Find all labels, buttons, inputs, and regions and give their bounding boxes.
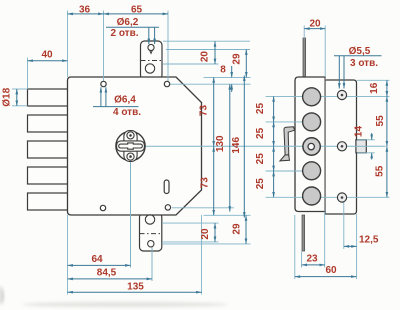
ext line body top y77.4 (204, 76, 251, 78)
screw hole bottom-left (100, 205, 105, 210)
svg-text:20: 20 (309, 18, 321, 29)
right view faceplate top ext y80.3 (357, 79, 390, 81)
bottom tab fold dash-dot (140, 233, 162, 235)
svg-text:36: 36 (79, 4, 91, 15)
svg-text:73: 73 (200, 177, 211, 189)
svg-text:65: 65 (131, 4, 143, 15)
ext x343.8 below hole3 (343, 202, 345, 249)
svg-text:4 отв.: 4 отв. (113, 107, 141, 118)
bolt 3 (28, 141, 69, 158)
svg-text:14: 14 (354, 126, 365, 138)
ext line bottom tab y241.9 (162, 241, 219, 243)
screw hole top-right (164, 81, 169, 86)
top tab hole (148, 44, 154, 50)
dim 14 (371, 133, 373, 140)
ext line x103.5 (103, 11, 105, 82)
hook lever (280, 127, 295, 161)
svg-text:12,5: 12,5 (359, 234, 379, 245)
dim 29 bottom (245, 215, 247, 244)
svg-text:64: 64 (91, 254, 103, 265)
dim 65 (104, 13, 169, 15)
top tab (141, 41, 163, 79)
svg-text:Ø5,5: Ø5,5 (349, 46, 371, 57)
dim 73 upper (213, 77, 215, 146)
bolt end circle 1 (303, 88, 321, 106)
dim 16 (386, 80, 388, 96)
dim 146 (243, 76, 245, 218)
svg-text:20: 20 (200, 51, 211, 63)
dim 20 bottom (214, 223, 216, 242)
dim 20 top (214, 41, 216, 64)
dim 55 lower (386, 146, 388, 197)
dim 25 chain (273, 96, 275, 122)
cylinder screw bottom (127, 153, 134, 160)
ext line hole row y84.2 (170, 83, 251, 85)
row line y197.3 (266, 196, 390, 198)
cylinder screw top (127, 132, 134, 139)
faceplate (325, 80, 357, 214)
leader o5.5 (334, 55, 382, 57)
svg-text:20: 20 (200, 228, 211, 240)
ext line hole row y207.8 (172, 207, 234, 209)
dim 130 (229, 84, 231, 211)
top tab notch circle (145, 64, 154, 73)
dim 55 upper (386, 96, 388, 146)
dim 29 top (245, 50, 247, 78)
dim 40 (28, 60, 68, 62)
latch top ext y139.8 (357, 139, 375, 141)
dim 64 (68, 264, 131, 266)
bottom tab hole (148, 241, 154, 247)
ext line tab hole y49.5 (166, 49, 250, 51)
center line horizontal y146 (145, 145, 385, 147)
svg-text:Ø18: Ø18 (2, 87, 13, 106)
faceplate screw hole 3 (337, 193, 346, 202)
ext line bottom tab y223.1 (162, 222, 219, 224)
svg-text:84,5: 84,5 (97, 268, 117, 279)
dim o18 (16, 89, 18, 106)
svg-text:16: 16 (369, 82, 380, 94)
lock body plate (68, 77, 202, 215)
right view ext x304 strip (303, 26, 305, 39)
top rod (303, 38, 306, 78)
svg-text:Ø6,4: Ø6,4 (114, 95, 136, 106)
bolt 5 (28, 193, 69, 210)
top tab fold dash-dot (141, 60, 163, 62)
ext line body bottom y215.3 (204, 214, 251, 216)
ext line o18 bottom (12, 105, 28, 107)
cylinder outer circle (116, 131, 145, 160)
svg-text:146: 146 (231, 137, 242, 154)
screw hole top-left (101, 81, 106, 86)
top tab hole notch (150, 50, 153, 53)
screw hole bottom-right (165, 205, 170, 210)
bolt 2 (28, 115, 69, 132)
svg-text:55: 55 (375, 115, 386, 127)
leader o6.2 (106, 26, 159, 28)
ext line x27.5 bolt top (27, 58, 29, 90)
aux latch (356, 140, 366, 153)
row line y171 (266, 170, 321, 172)
cylinder end inner (308, 143, 314, 149)
svg-text:23: 23 (306, 253, 318, 264)
dim 73 lower (213, 146, 215, 215)
svg-text:Ø6,2: Ø6,2 (117, 17, 139, 28)
svg-text:25: 25 (255, 153, 266, 165)
svg-text:25: 25 (255, 103, 266, 115)
svg-text:29: 29 (232, 223, 243, 235)
cylinder horizontal band (117, 141, 145, 151)
row line y96.4 (266, 95, 390, 97)
right view ext x325 (324, 26, 326, 78)
dim 8 (231, 66, 233, 77)
ext line x201.5 bottom (201, 215, 203, 295)
dim 84.5 (68, 278, 153, 280)
svg-text:25: 25 (255, 127, 266, 139)
faceplate screw hole 1 (337, 90, 346, 99)
key slot (119, 143, 143, 149)
ext line tab top y41 (163, 40, 250, 42)
bolt end circle 3 (303, 162, 321, 180)
lock case side (295, 77, 325, 212)
bolt end circle 4 (303, 187, 321, 205)
svg-text:2 отв.: 2 отв. (110, 28, 138, 39)
case seam (324, 78, 326, 211)
dim 23 (302, 264, 325, 266)
bolt end circle 2 (303, 113, 321, 131)
svg-text:3 отв.: 3 отв. (350, 58, 378, 69)
dim 135 (68, 291, 202, 293)
cylinder vertical band (124, 131, 137, 162)
latch bottom ext y152.8 (357, 152, 375, 154)
ext line o18 top (12, 88, 28, 90)
bolt 4 (28, 167, 69, 184)
ext line x67.5 bottom (67, 215, 69, 295)
ext x324.7 below case (324, 212, 326, 268)
faceplate screw hole 2 (337, 142, 346, 151)
ext x301.6 below strip (301, 252, 303, 268)
center line vertical from cylinder (130, 161, 132, 268)
bottom tab notch circle (145, 215, 154, 224)
ext x294.8 below case left (294, 215, 296, 279)
small slot (164, 180, 169, 194)
bottom rod (302, 215, 305, 251)
dim 60 (295, 276, 357, 278)
svg-text:25: 25 (255, 178, 266, 190)
dim 20 right view (304, 28, 325, 30)
dim 36 (68, 13, 104, 15)
svg-text:8: 8 (220, 65, 226, 76)
dim 12.5 (344, 245, 357, 247)
svg-text:60: 60 (325, 265, 337, 276)
svg-text:73: 73 (199, 105, 210, 117)
ext x356.6 below faceplate (356, 214, 358, 279)
svg-text:135: 135 (127, 282, 144, 293)
svg-text:29: 29 (232, 53, 243, 65)
bolt 1 (28, 89, 69, 106)
cylinder end circle (303, 138, 320, 155)
scan smudge bottom (22, 302, 228, 307)
ext line x168 (167, 11, 169, 82)
ext line fold y64 (163, 63, 219, 65)
center line vertical from bottom tab hole (151, 247, 153, 281)
ext line bottom tab hole y243.9 (162, 243, 251, 245)
ext line x67.5 top (67, 11, 69, 78)
svg-text:55: 55 (374, 165, 385, 177)
row line y121.9 (266, 121, 321, 123)
bottom tab (140, 213, 162, 251)
leader o6.4 (93, 106, 139, 108)
svg-text:130: 130 (215, 135, 226, 152)
scan smudge left edge (0, 285, 4, 304)
svg-text:40: 40 (41, 50, 53, 61)
